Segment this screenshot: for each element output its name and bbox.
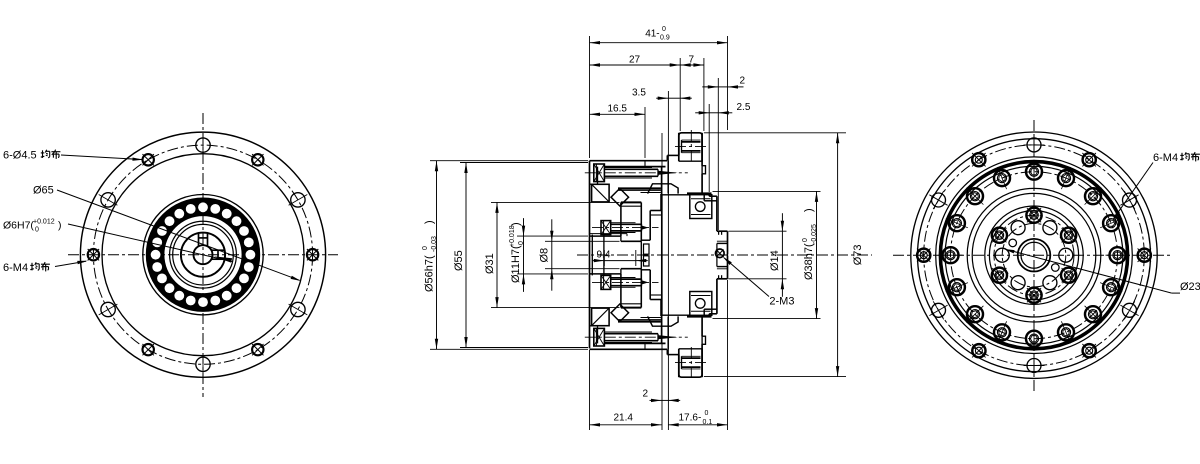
right view 6 plain holes inner (1043, 221, 1057, 235)
section extension lines (589, 36, 591, 158)
right view 2 pin holes (1009, 239, 1017, 247)
svg-text:0: 0 (802, 238, 809, 242)
section screw M4 top (594, 164, 605, 182)
section main axis centerline (577, 254, 872, 256)
svg-text:7: 7 (689, 55, 695, 66)
svg-text:-0.03: -0.03 (431, 236, 438, 252)
svg-text:41-: 41- (645, 29, 659, 40)
section flange hub middle lines (661, 196, 663, 315)
right view bolt circle BCD65 (924, 145, 1145, 366)
svg-text:17.6-: 17.6- (679, 413, 702, 424)
svg-text:): ) (803, 208, 815, 212)
svg-text:Ø11H7(: Ø11H7( (510, 245, 522, 283)
right view circle r98 (936, 157, 1133, 354)
svg-text:Ø14: Ø14 (769, 250, 781, 271)
section radial hole 2-M3 (716, 249, 725, 258)
svg-text:Ø55: Ø55 (453, 250, 465, 271)
svg-text:-0.025: -0.025 (811, 224, 818, 244)
svg-text:0.9: 0.9 (660, 35, 670, 42)
svg-text:Ø73: Ø73 (852, 245, 864, 266)
right view bold circle (940, 162, 1127, 349)
section flange tapped holes (682, 141, 701, 143)
right view 16 socket screws ring (1026, 164, 1042, 180)
right view center bore (1021, 242, 1047, 268)
right view cluster inner BCD (1002, 223, 1066, 287)
left leader 065 (57, 190, 300, 280)
left view bearing balls (198, 202, 208, 212)
left leader 6-04.5 (61, 155, 142, 160)
section wave generator hub (649, 211, 651, 241)
left view 6 tapped holes M4 (252, 154, 263, 165)
svg-text:6-M4: 6-M4 (1153, 152, 1178, 164)
section extra profile lines (597, 167, 599, 185)
left leader 06H7 (68, 224, 233, 262)
svg-text:2: 2 (740, 76, 746, 87)
right view circle r67 (967, 188, 1101, 322)
section input bore 11H7 and 8 (590, 235, 621, 237)
svg-text:Ø31: Ø31 (484, 253, 496, 274)
svg-text:): ) (424, 220, 436, 224)
left view bolt circle BCD (93, 145, 312, 364)
right view circle r49 (985, 206, 1083, 304)
section screw M3 top inner (601, 221, 611, 235)
svg-text:0: 0 (422, 246, 429, 250)
left view bearing inner race circle (170, 221, 237, 288)
svg-text:9.4: 9.4 (597, 250, 611, 261)
right view outer face circle (918, 139, 1151, 372)
right view circle r89 (945, 166, 1123, 344)
left view centerlines (202, 113, 204, 397)
left leader 6-M4 (55, 261, 86, 266)
svg-text:+0.012: +0.012 (33, 219, 55, 226)
right view 6 socket screws M4 outer (1083, 153, 1096, 166)
svg-text:2-M3: 2-M3 (769, 296, 794, 308)
svg-text:): ) (510, 222, 522, 226)
svg-text:): ) (58, 220, 62, 232)
svg-text:0: 0 (705, 410, 709, 417)
section leader 2-M3 (724, 258, 769, 297)
left view bearing bore circle (173, 224, 234, 285)
section output bearing balls (690, 195, 712, 219)
svg-text:2: 2 (643, 389, 649, 400)
left view outer flange circle (80, 132, 325, 377)
svg-text:Ø65: Ø65 (33, 185, 54, 197)
right view circle r44 (989, 211, 1078, 300)
right view circle r62 (972, 193, 1096, 317)
section screw M4 bottom (594, 328, 605, 346)
right view screw ring BCD50 (951, 172, 1118, 339)
right view center circle 16 (1018, 239, 1051, 272)
left view keyway slot top (198, 233, 200, 246)
right view 6 socket screws M4 inner (1026, 208, 1041, 223)
section screw M3 bottom inner (601, 275, 611, 289)
left view bearing outer circle (143, 195, 263, 315)
left view boss circle 65 (102, 154, 304, 356)
section tooth mesh zones (648, 184, 679, 194)
right view centerlines (1033, 120, 1035, 391)
right view cluster BCD23 (994, 215, 1074, 295)
svg-text:0.1: 0.1 (703, 419, 713, 426)
section ball diamonds (611, 188, 629, 206)
left view 6 plain holes 4.5 (196, 138, 210, 152)
svg-text:0: 0 (662, 26, 666, 33)
section dimension lines (590, 42, 728, 44)
section part outline (589, 161, 591, 349)
svg-text:+0.018: +0.018 (509, 225, 516, 247)
svg-text:3.5: 3.5 (632, 88, 646, 99)
left view center bore 6H7 (194, 245, 213, 264)
section crossed rollers (592, 184, 610, 202)
svg-text:Ø8: Ø8 (539, 248, 551, 263)
svg-text:0: 0 (518, 241, 525, 245)
svg-text:Ø6H7(: Ø6H7( (3, 220, 34, 232)
right leader 023 (1172, 292, 1180, 294)
svg-text:Ø38h7(: Ø38h7( (803, 243, 815, 280)
right view 6 plain holes 4.5 (1027, 138, 1041, 152)
left view hub circle (181, 233, 225, 277)
svg-text:2.5: 2.5 (737, 102, 751, 113)
svg-text:16.5: 16.5 (608, 104, 628, 115)
left view bearing black annulus (146, 197, 260, 311)
left view keyway slot right (211, 249, 224, 251)
right view outer flange circle (911, 132, 1157, 378)
svg-text:6-M4: 6-M4 (3, 262, 28, 274)
svg-text:21.4: 21.4 (614, 413, 634, 424)
right leader 6-M4 (1114, 163, 1154, 219)
svg-text:0: 0 (35, 227, 39, 234)
svg-text:Ø56h7(: Ø56h7( (424, 255, 436, 292)
svg-text:6-Ø4.5: 6-Ø4.5 (3, 150, 37, 162)
section rim tab (702, 166, 705, 174)
svg-text:27: 27 (629, 55, 641, 66)
svg-text:Ø23: Ø23 (1180, 281, 1200, 293)
